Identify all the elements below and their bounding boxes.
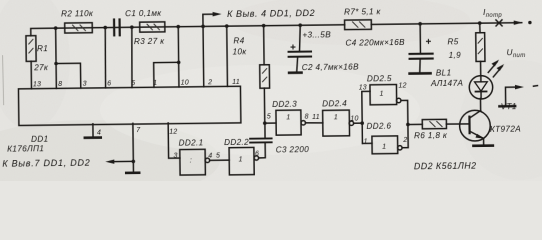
pin labels DD1 top <box>33 79 240 88</box>
svg-text:8: 8 <box>58 81 62 88</box>
terminal dot right end <box>528 21 531 24</box>
svg-text:1: 1 <box>380 91 384 98</box>
wire branch to pin 3 <box>56 63 81 88</box>
svg-text:2: 2 <box>207 79 212 86</box>
wire bus down to pin 2 <box>202 26 205 86</box>
svg-text:1: 1 <box>153 80 157 87</box>
svg-text:DD2.6: DD2.6 <box>366 122 391 131</box>
node junction outputs to R6 <box>406 123 410 127</box>
resistor R7 <box>344 7 382 29</box>
IC DD1 box <box>18 86 240 125</box>
resistor R1 <box>26 36 49 89</box>
svg-text:+3...5В: +3...5В <box>302 30 331 39</box>
svg-text:6: 6 <box>107 80 111 87</box>
svg-text:R2 110к: R2 110к <box>61 9 94 18</box>
wire DD2.2 out to C3 <box>258 143 265 158</box>
svg-text:C3 2200: C3 2200 <box>276 145 310 154</box>
svg-text:R6 1,8 к: R6 1,8 к <box>414 131 448 140</box>
svg-text:R5: R5 <box>447 37 458 46</box>
wire pin 12 DD1 to DD2.1 input <box>168 123 180 158</box>
svg-text:BL1: BL1 <box>436 68 452 77</box>
wire branch to pin 1 <box>154 62 179 87</box>
svg-text:DD2.4: DD2.4 <box>322 99 347 108</box>
inverter DD2.5 <box>359 74 407 105</box>
svg-text:5: 5 <box>131 80 135 87</box>
node junction bus to R5 <box>478 21 482 25</box>
svg-text:13: 13 <box>359 84 367 91</box>
svg-text:13: 13 <box>33 81 41 88</box>
svg-text:10: 10 <box>181 80 189 87</box>
current break mark Iпотр <box>483 8 502 26</box>
ground pin 7 <box>125 171 140 174</box>
svg-text:R3 27 к: R3 27 к <box>134 37 165 46</box>
scan artifact line left edge <box>3 55 4 105</box>
node junction R4/C3/DD2.3 input <box>263 121 267 125</box>
svg-text:11: 11 <box>232 79 240 86</box>
voltage arrow Uпит <box>498 48 538 106</box>
svg-text:1: 1 <box>334 114 338 121</box>
svg-text:C4 220мк×16В: C4 220мк×16В <box>345 38 405 48</box>
node junction bus to R4 <box>262 24 266 28</box>
inverter DD2.6 <box>363 122 407 154</box>
node junction parallel inverters input <box>360 121 364 125</box>
svg-text:12: 12 <box>169 129 177 136</box>
wire bus down to pin 11 <box>226 26 229 86</box>
wire pin 7 DD1 to ground <box>105 123 142 172</box>
inverter DD2.2 <box>224 137 259 175</box>
ground под C2 <box>288 71 303 74</box>
svg-text:4: 4 <box>97 129 101 136</box>
svg-text:1: 1 <box>239 156 243 163</box>
svg-text:C1 0,1мк: C1 0,1мк <box>125 9 162 18</box>
svg-text:DD2.3: DD2.3 <box>272 99 297 108</box>
resistor R3 <box>134 22 166 46</box>
svg-text:8: 8 <box>305 113 309 120</box>
ground pin 4 DD1 <box>83 124 102 138</box>
svg-text:11: 11 <box>312 114 320 121</box>
svg-text:1: 1 <box>286 114 290 121</box>
inverter DD2.4 <box>322 99 359 136</box>
resistor R6 <box>414 119 448 140</box>
wire top supply bus right section <box>371 23 521 25</box>
wire node to DD2.3 input <box>265 122 276 124</box>
resistor R5 <box>447 23 485 62</box>
svg-text:6: 6 <box>255 151 259 158</box>
wire bus down to pin 10 <box>177 27 180 87</box>
svg-text:3: 3 <box>174 152 178 159</box>
svg-text:DD1: DD1 <box>31 134 49 143</box>
resistor R4 <box>232 26 270 124</box>
capacitor C3 <box>249 123 309 155</box>
transistor VT1 <box>459 98 521 145</box>
svg-text:DD2.2: DD2.2 <box>224 138 249 147</box>
svg-text:КТ972А: КТ972А <box>490 124 521 133</box>
node junction bus to pins 1,10 <box>176 25 180 29</box>
wire node A down to pin 8 <box>55 28 58 88</box>
wire DD2.1 out to DD2.2 in <box>210 159 230 161</box>
wire output rail DD2.5/DD2.6 to R6 <box>401 100 408 147</box>
svg-text:4: 4 <box>208 152 212 159</box>
svg-text:DD2.5: DD2.5 <box>367 74 392 83</box>
svg-text:5: 5 <box>216 152 220 159</box>
ground под C4 <box>408 72 431 75</box>
svg-text:10: 10 <box>350 115 358 122</box>
wire top supply bus left section <box>31 25 345 36</box>
svg-text:C2 4,7мк×16В: C2 4,7мк×16В <box>302 62 359 72</box>
node junction R2/C1 to pin 6 <box>103 26 107 30</box>
wire stub up to Vdd label arrow <box>203 14 215 26</box>
node A junction R1/R2/pin8 <box>54 26 58 30</box>
wire down to pin 5 <box>131 27 132 87</box>
node junction bus / pin 2 / Vdd arrow <box>201 25 205 29</box>
inverter DD2.3 <box>267 99 309 135</box>
svg-text:3: 3 <box>83 81 87 88</box>
wire down to pin 6 <box>105 28 106 88</box>
svg-text:1,9: 1,9 <box>449 51 462 60</box>
wire to R6 <box>408 123 422 125</box>
wire DD2.4 out to DD2.5/2.6 inputs <box>354 122 363 124</box>
wire R6 to VT1 base <box>446 123 469 125</box>
svg-text:VT1: VT1 <box>501 102 517 111</box>
svg-text:АЛ147А: АЛ147А <box>430 79 464 88</box>
wire input rail DD2.5/DD2.6 <box>362 91 371 143</box>
LED BL1 <box>430 60 505 100</box>
capacitor C1 <box>114 9 163 37</box>
svg-text:R7* 5,1 к: R7* 5,1 к <box>344 7 381 16</box>
svg-text:К176ЛП1: К176ЛП1 <box>7 144 44 153</box>
node junction C1/R3 to pin 5 <box>130 25 134 29</box>
paper background <box>0 0 542 181</box>
inverter DD2.1 <box>173 138 212 175</box>
node junction bus to C2 <box>298 23 302 27</box>
node junction pin3 branch <box>54 62 58 66</box>
svg-text:К Выв. 4 DD1, DD2: К Выв. 4 DD1, DD2 <box>227 8 315 19</box>
svg-text:10к: 10к <box>232 47 247 56</box>
svg-text:DD2.1: DD2.1 <box>179 138 204 147</box>
capacitor C4 electrolytic <box>345 24 434 73</box>
svg-text:DD2 К561ЛН2: DD2 К561ЛН2 <box>414 161 477 172</box>
svg-text:К Выв.7 DD1, DD2: К Выв.7 DD1, DD2 <box>2 158 90 169</box>
resistor R2 <box>61 9 94 33</box>
wire DD2.3 out to DD2.4 in <box>305 122 322 124</box>
node junction bus to pin 11 <box>225 24 229 28</box>
svg-text:1: 1 <box>382 143 386 150</box>
node junction pin1 branch <box>177 61 181 65</box>
svg-text:R4: R4 <box>233 36 244 45</box>
svg-text:1: 1 <box>364 138 368 145</box>
arrow on bus right end <box>514 20 523 25</box>
svg-text:27к: 27к <box>33 63 49 72</box>
svg-text::: : <box>190 157 192 164</box>
ground emitter VT1 <box>472 144 494 147</box>
capacitor C2 electrolytic <box>287 25 359 73</box>
svg-text:R1: R1 <box>37 44 48 53</box>
svg-text:5: 5 <box>267 114 271 121</box>
svg-text:2: 2 <box>402 137 407 144</box>
node junction bus to C4 <box>418 22 422 26</box>
svg-text:12: 12 <box>398 82 406 89</box>
